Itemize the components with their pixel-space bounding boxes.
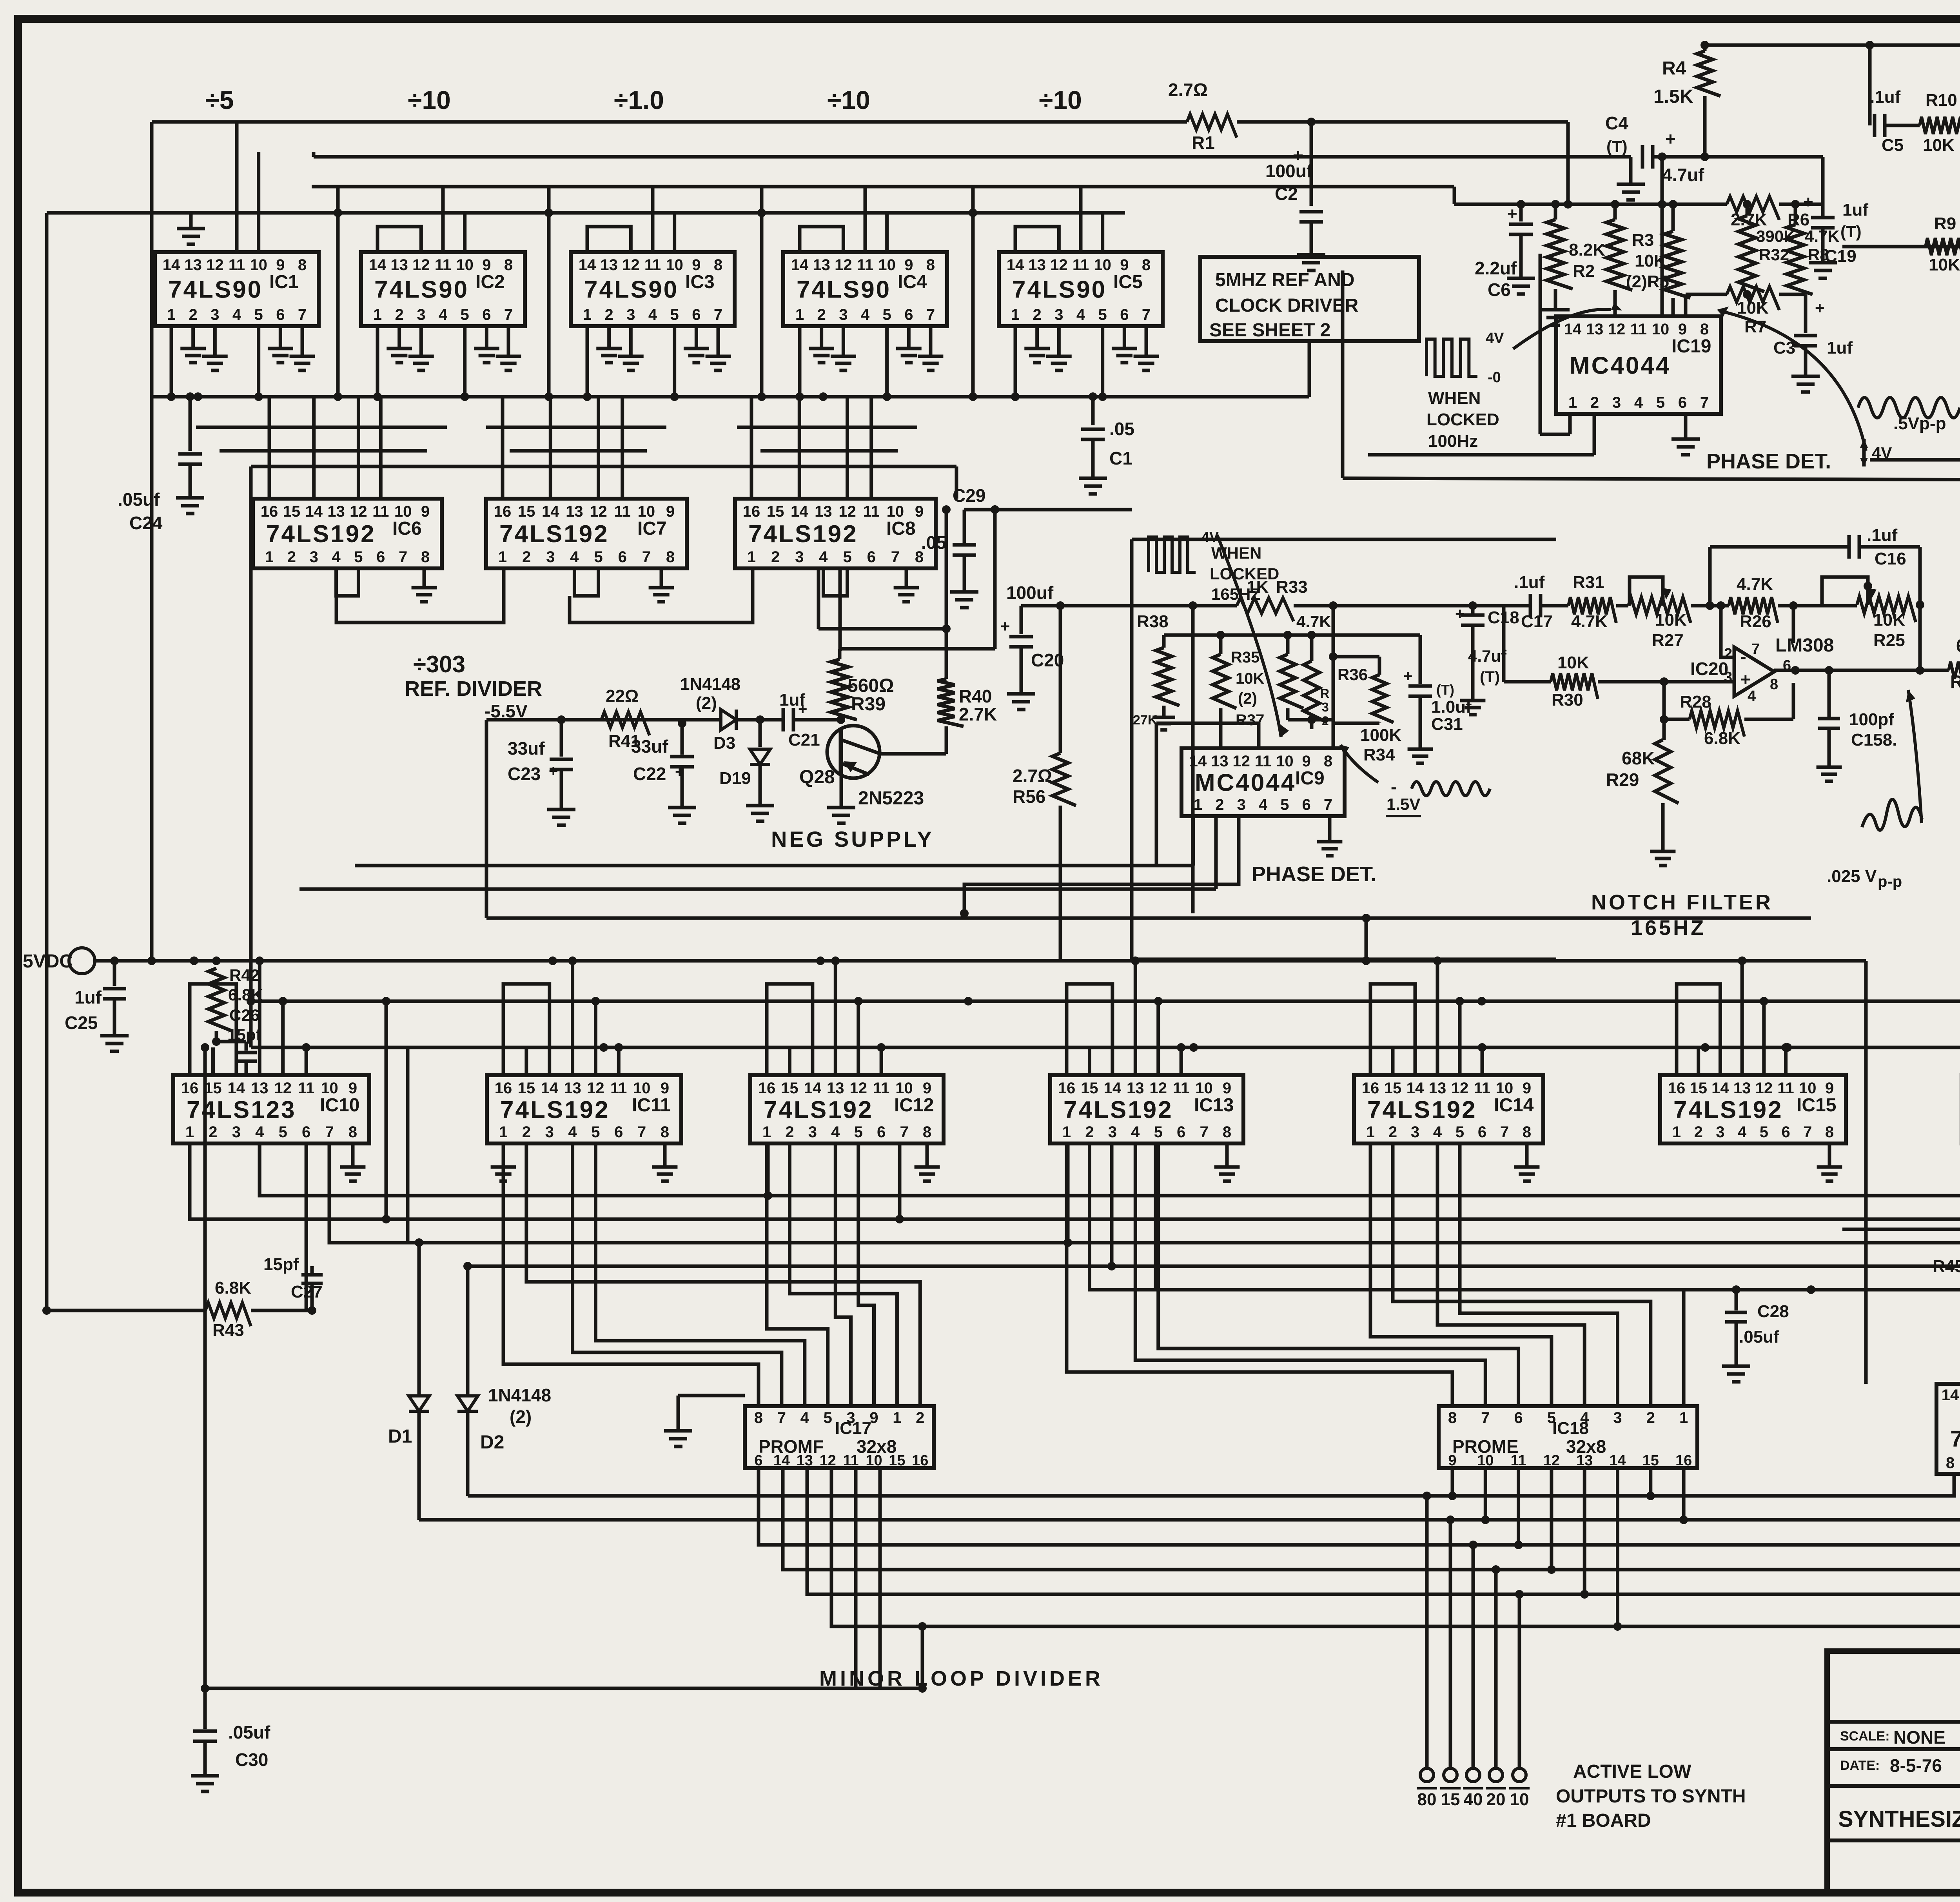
svg-text:1: 1	[265, 548, 274, 566]
svg-text:2.7Ω: 2.7Ω	[1168, 80, 1208, 100]
svg-text:15: 15	[767, 503, 784, 520]
svg-text:4.7K: 4.7K	[1805, 227, 1840, 245]
capacitor C25 1uf	[113, 961, 116, 986]
svg-text:3: 3	[211, 306, 219, 323]
svg-text:4: 4	[831, 1123, 840, 1141]
svg-text:NOTCH FILTER: NOTCH FILTER	[1591, 891, 1773, 914]
svg-text:2: 2	[522, 548, 531, 566]
wire bottom bundle line 5	[807, 1468, 1960, 1594]
svg-text:4: 4	[1076, 306, 1085, 323]
svg-text:3: 3	[232, 1123, 241, 1141]
svg-text:8: 8	[923, 1123, 931, 1141]
74LS90 IC1	[155, 252, 319, 326]
svg-text:4: 4	[800, 1409, 809, 1426]
svg-text:1uf: 1uf	[1827, 338, 1853, 358]
resistor R25 10K	[1857, 596, 1916, 622]
wire mid bus y2342	[486, 917, 1811, 920]
svg-text:5: 5	[854, 1123, 863, 1141]
wire IC19 pin verticals	[1613, 290, 1617, 316]
svg-text:-: -	[1740, 647, 1746, 666]
svg-text:14: 14	[1007, 256, 1024, 274]
svg-text:8: 8	[1324, 753, 1332, 770]
connector output 20	[1489, 1768, 1503, 1782]
svg-text:3: 3	[1322, 700, 1329, 714]
wire left vert x119 lower	[45, 961, 49, 1310]
svg-text:1: 1	[185, 1123, 194, 1141]
svg-text:4: 4	[570, 548, 579, 566]
svg-text:14: 14	[773, 1452, 790, 1469]
wire separator verticals	[336, 187, 340, 397]
svg-text:15: 15	[1081, 1080, 1098, 1097]
svg-text:16: 16	[261, 503, 278, 520]
svg-text:14: 14	[804, 1080, 822, 1097]
svg-text:20: 20	[1486, 1790, 1506, 1809]
resistor R38	[1162, 635, 1166, 648]
svg-text:74LS90: 74LS90	[584, 276, 679, 303]
svg-text:4: 4	[439, 306, 448, 323]
svg-text:33uf: 33uf	[508, 738, 545, 759]
svg-text:11: 11	[1511, 1452, 1526, 1469]
svg-text:11: 11	[873, 1080, 889, 1097]
svg-text:+: +	[675, 763, 684, 780]
svg-text:2: 2	[605, 306, 613, 323]
arrow to output	[1908, 690, 1922, 823]
svg-text:11: 11	[1255, 753, 1271, 770]
svg-text:R26: R26	[1740, 612, 1771, 631]
ground IC8 pin8	[905, 568, 908, 577]
svg-text:1: 1	[1568, 394, 1577, 411]
svg-text:12: 12	[838, 503, 856, 520]
wire vert x3043	[1191, 606, 1195, 913]
left vertical bus x387	[150, 122, 154, 961]
ground IC9 pin7	[1328, 816, 1332, 831]
svg-text:9: 9	[923, 1080, 931, 1097]
svg-text:12: 12	[1608, 321, 1626, 338]
svg-text:4.7K: 4.7K	[1737, 575, 1773, 594]
wire PROMF extra drops	[854, 1468, 858, 1688]
svg-text:560Ω: 560Ω	[848, 675, 894, 696]
wire bottom bundle line 1	[468, 1474, 1954, 1496]
svg-text:+: +	[798, 701, 807, 718]
svg-text:10: 10	[1496, 1080, 1514, 1097]
svg-text:10: 10	[394, 503, 412, 520]
ground C22	[668, 796, 696, 823]
wire main bus below top ICs y1012	[152, 395, 1309, 399]
svg-text:10K: 10K	[1737, 298, 1769, 318]
svg-text:9: 9	[1523, 1080, 1531, 1097]
svg-text:5: 5	[1154, 1123, 1163, 1141]
ground left of PROMF	[677, 1396, 680, 1419]
svg-text:3: 3	[545, 1123, 554, 1141]
svg-text:R27: R27	[1652, 631, 1684, 650]
svg-text:IC1: IC1	[269, 272, 299, 292]
capacitor C1 .05	[1091, 397, 1095, 425]
svg-text:R3: R3	[1632, 230, 1654, 250]
svg-text:R35: R35	[1231, 649, 1259, 666]
svg-text:100K: 100K	[1360, 726, 1401, 745]
wires above IC4	[800, 227, 843, 252]
left vertical bus x119	[45, 213, 49, 961]
svg-text:8: 8	[926, 256, 935, 274]
wire band output drops	[1423, 1492, 1431, 1500]
capacitor C16 .1uf feedback	[1708, 547, 1712, 606]
svg-text:.1uf: .1uf	[1867, 526, 1898, 545]
svg-text:(T): (T)	[1480, 668, 1500, 686]
ground C31	[1408, 739, 1433, 763]
wire staircase row1-row2 d	[510, 449, 647, 453]
svg-text:2: 2	[785, 1123, 794, 1141]
svg-text:C26: C26	[229, 1006, 260, 1024]
wire staircase row1-row2 a	[196, 426, 447, 429]
wire from 5MHZ box down	[1308, 341, 1311, 397]
svg-text:R: R	[1320, 686, 1329, 701]
svg-text:11: 11	[1173, 1080, 1189, 1097]
svg-text:1uf: 1uf	[1842, 200, 1868, 220]
svg-text:(T): (T)	[1606, 137, 1628, 156]
svg-text:+: +	[1000, 617, 1010, 635]
wires above IC3	[587, 227, 631, 252]
svg-text:2: 2	[1033, 306, 1042, 323]
svg-text:9: 9	[1678, 321, 1687, 338]
ground C25	[100, 1024, 129, 1051]
wires below IC9	[1192, 816, 1195, 866]
74LS192 IC11	[487, 1075, 681, 1143]
svg-text:6: 6	[867, 548, 876, 566]
staple above IC9	[1156, 722, 1259, 725]
svg-text:10K: 10K	[1557, 653, 1589, 672]
svg-text:C1: C1	[1109, 448, 1132, 468]
svg-text:DATE:: DATE:	[1840, 1758, 1880, 1773]
wire upper 1604	[817, 568, 820, 629]
svg-text:10: 10	[866, 1452, 882, 1469]
svg-text:.1uf: .1uf	[1870, 87, 1901, 107]
svg-text:(2): (2)	[1238, 690, 1257, 707]
wires above IC11	[503, 984, 550, 1075]
svg-text:74LS192: 74LS192	[1367, 1096, 1477, 1123]
ground R29	[1650, 841, 1676, 866]
svg-text:7: 7	[926, 306, 935, 323]
connector output 40	[1466, 1768, 1480, 1782]
svg-text:1: 1	[893, 1409, 901, 1426]
MC4044 IC9 phase detector	[1181, 748, 1345, 816]
svg-text:7: 7	[900, 1123, 908, 1141]
svg-text:IC19: IC19	[1671, 336, 1711, 357]
svg-text:9: 9	[421, 503, 430, 520]
74LS90 IC3	[571, 252, 735, 326]
svg-text:7: 7	[1142, 306, 1151, 323]
svg-text:10K: 10K	[1929, 255, 1960, 274]
svg-text:14: 14	[541, 1080, 558, 1097]
svg-text:13: 13	[251, 1080, 269, 1097]
svg-text:C17: C17	[1521, 612, 1553, 631]
svg-text:13: 13	[1429, 1080, 1446, 1097]
svg-text:13: 13	[1211, 753, 1229, 770]
svg-text:14: 14	[791, 503, 808, 520]
resistor R44 2.7K	[1842, 1228, 1960, 1231]
svg-text:8: 8	[348, 1123, 357, 1141]
svg-text:6.8K: 6.8K	[1704, 729, 1740, 748]
capacitor C22 33uf	[678, 719, 686, 728]
svg-text:6: 6	[904, 306, 913, 323]
svg-text:3: 3	[808, 1123, 817, 1141]
svg-text:11: 11	[1073, 256, 1089, 274]
74LS04 IC26	[1936, 1384, 1960, 1474]
svg-text:7: 7	[298, 306, 307, 323]
capacitor C17 .1uf	[1530, 594, 1541, 617]
74LS192 IC15	[1660, 1075, 1846, 1143]
svg-text:IC3: IC3	[685, 272, 715, 292]
svg-text:14: 14	[1942, 1387, 1959, 1404]
svg-text:8: 8	[1770, 676, 1778, 693]
wire maze PROMF feeds	[503, 1143, 759, 1406]
svg-text:12: 12	[622, 256, 640, 274]
svg-text:4: 4	[861, 306, 870, 323]
svg-text:10: 10	[1477, 1452, 1494, 1469]
resistor R30 10K	[1502, 606, 1506, 682]
svg-text:1: 1	[1672, 1123, 1681, 1141]
74LS192 IC6	[253, 499, 442, 568]
svg-text:11: 11	[1630, 321, 1647, 338]
resistor R6 2.7K	[1727, 196, 1779, 220]
svg-text:-: -	[1391, 777, 1397, 797]
svg-text:6: 6	[754, 1452, 762, 1469]
svg-text:8-5-76: 8-5-76	[1890, 1755, 1942, 1776]
svg-text:4V: 4V	[1486, 330, 1504, 347]
svg-text:4.7K: 4.7K	[1571, 612, 1608, 631]
wire 5VDC bus	[95, 959, 1866, 963]
svg-text:6.8K: 6.8K	[228, 985, 263, 1004]
svg-text:1.5V: 1.5V	[1387, 795, 1420, 813]
svg-text:R9: R9	[1934, 214, 1956, 233]
svg-text:1N4148: 1N4148	[488, 1385, 551, 1405]
svg-text:11: 11	[1474, 1080, 1490, 1097]
ground IC6 pin8	[423, 568, 426, 577]
ground C2	[1297, 243, 1325, 270]
4V arrow annotation	[1862, 439, 1866, 466]
resistor R31 4.7K	[1568, 597, 1616, 623]
svg-text:6: 6	[618, 548, 627, 566]
svg-text:3: 3	[546, 548, 555, 566]
svg-text:74LS192: 74LS192	[764, 1096, 873, 1123]
resistor R7 10K	[1727, 287, 1779, 310]
svg-text:6: 6	[614, 1123, 623, 1141]
svg-text:9: 9	[1223, 1080, 1231, 1097]
svg-text:3: 3	[795, 548, 804, 566]
svg-text:2: 2	[817, 306, 826, 323]
title block frame	[1827, 1651, 1960, 1894]
wires above IC12	[767, 984, 813, 1075]
diode D19	[756, 715, 764, 724]
ground C4	[1617, 172, 1645, 200]
svg-text:10: 10	[887, 503, 904, 520]
svg-text:74LS192: 74LS192	[1673, 1096, 1783, 1123]
svg-text:10K: 10K	[1655, 610, 1687, 630]
svg-text:(T): (T)	[1436, 682, 1454, 698]
curved arrow from pin8	[1723, 312, 1866, 451]
wire cascade IC8 down	[817, 596, 820, 629]
svg-text:14: 14	[305, 503, 323, 520]
svg-text:14: 14	[791, 256, 809, 274]
svg-text:8: 8	[754, 1409, 763, 1426]
wire right feed down to 74LS04	[1864, 961, 1868, 1384]
svg-text:80: 80	[1417, 1790, 1437, 1809]
svg-text:1: 1	[762, 1123, 771, 1141]
wire cascade IC6 to IC7	[336, 568, 504, 623]
svg-text:5: 5	[254, 306, 263, 323]
svg-text:C158.: C158.	[1851, 730, 1897, 750]
svg-text:16: 16	[1675, 1452, 1692, 1469]
svg-text:13: 13	[600, 256, 618, 274]
svg-text:12: 12	[1543, 1452, 1560, 1469]
wires below IC6	[336, 568, 359, 596]
connector DATA 100HZ	[1870, 458, 1960, 462]
svg-text:5: 5	[279, 1123, 287, 1141]
svg-text:13: 13	[1733, 1080, 1751, 1097]
svg-text:7: 7	[325, 1123, 334, 1141]
wire bottom bundle line 3	[759, 1468, 1960, 1545]
svg-text:8: 8	[1946, 1454, 1955, 1472]
ground left of IC1	[177, 217, 205, 244]
svg-text:13: 13	[564, 1080, 581, 1097]
svg-text:10K: 10K	[1873, 610, 1905, 630]
svg-text:12: 12	[274, 1080, 292, 1097]
wires below IC2	[376, 326, 379, 397]
svg-text:4: 4	[1748, 688, 1756, 704]
svg-text:7: 7	[891, 548, 900, 566]
svg-text:R39: R39	[851, 694, 886, 715]
svg-text:IC7: IC7	[637, 518, 667, 539]
pulse waveform when locked 100Hz	[1426, 339, 1477, 376]
wires above IC2	[377, 227, 421, 252]
diode D1	[417, 1243, 421, 1396]
svg-text:.05uf: .05uf	[228, 1722, 270, 1742]
wire input chain y320	[1885, 124, 1920, 127]
svg-text:.05uf: .05uf	[118, 489, 160, 510]
svg-text:÷1.0: ÷1.0	[614, 85, 664, 114]
ground C3	[1791, 365, 1820, 392]
resistor R9 10K	[1926, 238, 1960, 264]
ground C19	[1809, 251, 1837, 278]
74LS90 IC4	[783, 252, 947, 326]
svg-text:R4: R4	[1662, 58, 1686, 79]
svg-text:9: 9	[1825, 1080, 1834, 1097]
wire maze line 4	[468, 1266, 1960, 1384]
wire neg supply rail	[486, 718, 720, 722]
svg-text:5: 5	[843, 548, 851, 566]
wire staircase row1-row2 f	[760, 449, 898, 453]
wire mid bus y2672	[251, 1046, 1960, 1049]
wire R9 line	[1842, 245, 1960, 249]
wire Q28 collector to R40	[880, 752, 946, 756]
74LS192 IC12	[750, 1075, 944, 1143]
svg-text:4.7K: 4.7K	[1296, 612, 1331, 631]
svg-text:8: 8	[1825, 1123, 1834, 1141]
svg-text:1: 1	[1366, 1123, 1375, 1141]
svg-text:IC10: IC10	[320, 1095, 359, 1116]
svg-text:+: +	[1740, 670, 1751, 689]
svg-text:7: 7	[637, 1123, 646, 1141]
svg-text:1: 1	[795, 306, 804, 323]
svg-text:IC2: IC2	[475, 272, 505, 292]
wires above IC5	[1015, 227, 1059, 252]
wire R25 right	[1916, 603, 1920, 607]
wire R40 drop 2538	[993, 510, 997, 649]
svg-text:C5: C5	[1882, 136, 1904, 155]
wire top bus y476	[312, 185, 1454, 189]
svg-text:11: 11	[644, 256, 661, 274]
resistor R3 10K	[1613, 204, 1617, 220]
PROM E IC18 32x8	[1439, 1406, 1697, 1468]
svg-text:15pf: 15pf	[263, 1255, 299, 1274]
svg-text:14: 14	[1564, 321, 1582, 338]
svg-text:16: 16	[1058, 1080, 1076, 1097]
svg-text:3: 3	[1716, 1123, 1724, 1141]
wires above IC15	[1677, 984, 1720, 1075]
svg-text:3: 3	[417, 306, 425, 323]
svg-text:74LS90: 74LS90	[374, 276, 469, 303]
wires above IC7	[501, 397, 505, 499]
wires below IC4	[798, 326, 802, 397]
wire resistor bus y521	[1454, 203, 1727, 206]
svg-text:MC4044: MC4044	[1195, 770, 1296, 797]
svg-text:12: 12	[1451, 1080, 1469, 1097]
svg-text:4: 4	[1131, 1123, 1140, 1141]
ground under IC15 pin8	[1828, 1143, 1831, 1156]
svg-text:12: 12	[1149, 1080, 1167, 1097]
svg-text:11: 11	[863, 503, 880, 520]
svg-text:p-p: p-p	[1878, 873, 1902, 890]
resistor R36 loop	[1329, 652, 1338, 661]
svg-text:IC6: IC6	[392, 518, 422, 539]
svg-text:74LS192: 74LS192	[266, 521, 376, 548]
ground C28	[1722, 1354, 1750, 1382]
ground D19	[746, 794, 774, 821]
wire staircase row1-row2 c	[486, 426, 666, 429]
svg-text:6: 6	[1302, 796, 1311, 813]
wire chain 1545	[1294, 604, 1530, 608]
svg-text:10: 10	[895, 1080, 913, 1097]
svg-text:2: 2	[771, 548, 780, 566]
svg-text:2: 2	[1215, 796, 1224, 813]
svg-text:12: 12	[206, 256, 224, 274]
wire mid bus y2268	[299, 887, 1216, 891]
svg-text:7: 7	[1803, 1123, 1812, 1141]
svg-text:6: 6	[276, 306, 285, 323]
svg-text:R2: R2	[1573, 261, 1595, 281]
ground C1	[1079, 466, 1107, 494]
svg-text:3: 3	[1108, 1123, 1117, 1141]
svg-text:16: 16	[1668, 1080, 1686, 1097]
svg-text:7: 7	[1700, 394, 1709, 411]
svg-text:5: 5	[670, 306, 679, 323]
capacitor C30 .05uf	[203, 1688, 207, 1729]
svg-text:3: 3	[626, 306, 635, 323]
ground IC19 pin6	[1684, 414, 1688, 427]
svg-text:14: 14	[1189, 753, 1207, 770]
svg-text:2.7K: 2.7K	[959, 704, 997, 724]
svg-text:-0: -0	[1488, 369, 1501, 386]
svg-text:15: 15	[518, 503, 535, 520]
wire C19 drop	[1821, 157, 1825, 218]
svg-text:÷5: ÷5	[205, 85, 234, 114]
ground C23	[547, 798, 575, 825]
diode D2	[466, 1266, 470, 1396]
resistor R32 vertical	[1310, 635, 1314, 661]
svg-text:R28: R28	[1680, 692, 1711, 711]
svg-text:8: 8	[504, 256, 513, 274]
wires below IC1	[170, 326, 173, 397]
svg-text:C21: C21	[788, 730, 820, 750]
